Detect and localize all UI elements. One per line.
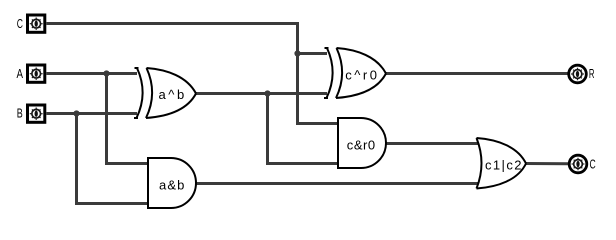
xor gate c^r0 bbox=[324, 48, 386, 98]
output R circle bbox=[569, 65, 587, 83]
wire: node B down and right to and a&b bottom input bbox=[77, 114, 150, 204]
input C value icon bbox=[30, 18, 43, 30]
input A box bbox=[28, 65, 45, 82]
wire: node C1 down and right to and c&r0 top input bbox=[298, 54, 340, 124]
node C1 junction bbox=[294, 50, 300, 56]
output C circle bbox=[569, 155, 587, 173]
svg-text:a&b: a&b bbox=[159, 178, 184, 193]
xor gate a^b bbox=[134, 68, 196, 118]
wire: input A to xor a^b top input bbox=[46, 72, 137, 75]
wire: and a&b output to or c1|c2 bottom input bbox=[196, 182, 478, 185]
svg-text:c1|c2: c1|c2 bbox=[485, 158, 522, 173]
wire: xor a^b output to xor c^r0 bottom input bbox=[196, 92, 327, 95]
wire: input C to corner down to node C1 bbox=[46, 24, 297, 54]
svg-text:C: C bbox=[17, 17, 23, 31]
wire: xor c^r0 output to output R bbox=[386, 72, 568, 75]
svg-text:a^b: a^b bbox=[159, 87, 185, 102]
and gate a&b bbox=[148, 158, 196, 208]
svg-text:C: C bbox=[590, 158, 596, 172]
svg-text:c^r0: c^r0 bbox=[345, 68, 377, 83]
node A junction bbox=[103, 70, 109, 76]
wire: input B to xor a^b bottom input bbox=[46, 112, 137, 115]
input B value icon bbox=[30, 108, 43, 120]
input B box bbox=[28, 105, 45, 122]
and gate c&r0 bbox=[338, 118, 386, 168]
output R value icon bbox=[571, 68, 584, 80]
svg-text:c&r0: c&r0 bbox=[347, 138, 375, 153]
wire: or c1|c2 output to output C bbox=[526, 162, 569, 165]
output C value icon bbox=[572, 158, 585, 170]
svg-text:R: R bbox=[589, 67, 595, 81]
wire: node C1 to xor c^r0 top input bbox=[298, 52, 328, 55]
wire: and c&r0 output to or c1|c2 top input bbox=[386, 142, 478, 145]
svg-text:A: A bbox=[17, 67, 24, 81]
node B junction bbox=[73, 110, 79, 116]
wire: node r0 down and right to and c&r0 bottom input bbox=[268, 94, 340, 164]
node r0 junction bbox=[264, 90, 270, 96]
or gate c1|c2 bbox=[477, 138, 527, 189]
input C box bbox=[28, 15, 45, 32]
wire: node A down and right to and a&b top input bbox=[107, 74, 150, 164]
svg-text:B: B bbox=[17, 107, 23, 121]
input A value icon bbox=[30, 68, 43, 80]
